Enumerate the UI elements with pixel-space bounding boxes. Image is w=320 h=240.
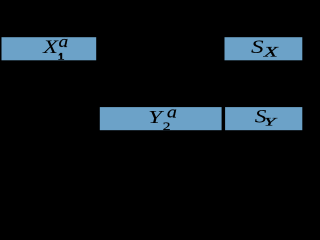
svg-text:X: X	[263, 44, 280, 60]
svg-text:a: a	[59, 32, 69, 51]
block S_X on X timeline	[225, 37, 303, 60]
svg-text:2: 2	[163, 120, 171, 133]
svg-text:X: X	[42, 37, 59, 58]
block Y_2^a on Y timeline	[100, 107, 222, 130]
subscript 1 of X_1^a	[58, 53, 64, 60]
block S_Y on Y timeline	[225, 107, 302, 130]
svg-text:S: S	[251, 36, 264, 57]
block X_1^a on X timeline	[2, 37, 97, 60]
